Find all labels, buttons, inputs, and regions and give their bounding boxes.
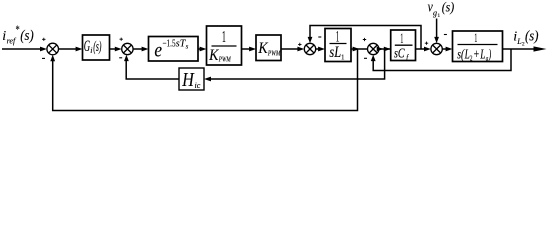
svg-text:(s): (s)	[93, 37, 101, 55]
svg-text:1: 1	[336, 27, 340, 45]
svg-text:sC: sC	[394, 45, 405, 61]
svg-text:(s): (s)	[20, 28, 34, 44]
svg-text:e: e	[154, 39, 162, 62]
svg-text:1: 1	[474, 32, 477, 46]
svg-text:(s): (s)	[525, 28, 539, 45]
svg-text:1: 1	[437, 13, 440, 19]
svg-text:K: K	[257, 40, 268, 57]
svg-text:L: L	[464, 47, 470, 62]
svg-text:PWM: PWM	[218, 56, 231, 64]
svg-text:1: 1	[341, 54, 345, 62]
svg-text:ic: ic	[195, 81, 201, 90]
svg-text:*: *	[16, 24, 20, 37]
svg-text:K: K	[208, 47, 219, 64]
svg-text:i: i	[2, 29, 6, 44]
svg-text:g: g	[433, 9, 437, 18]
svg-text:2: 2	[470, 56, 473, 63]
svg-text:(s): (s)	[442, 0, 455, 15]
svg-text:g: g	[486, 56, 488, 63]
svg-text:): )	[488, 47, 492, 62]
svg-text:sL: sL	[329, 44, 341, 62]
svg-text:L: L	[479, 47, 485, 62]
svg-text:1: 1	[222, 27, 226, 46]
svg-text:−1.5: −1.5	[163, 37, 177, 48]
svg-text:s: s	[186, 43, 189, 51]
svg-text:+: +	[474, 46, 480, 62]
svg-text:i: i	[90, 46, 92, 55]
svg-text:PWM: PWM	[267, 50, 281, 58]
svg-text:H: H	[181, 68, 194, 90]
